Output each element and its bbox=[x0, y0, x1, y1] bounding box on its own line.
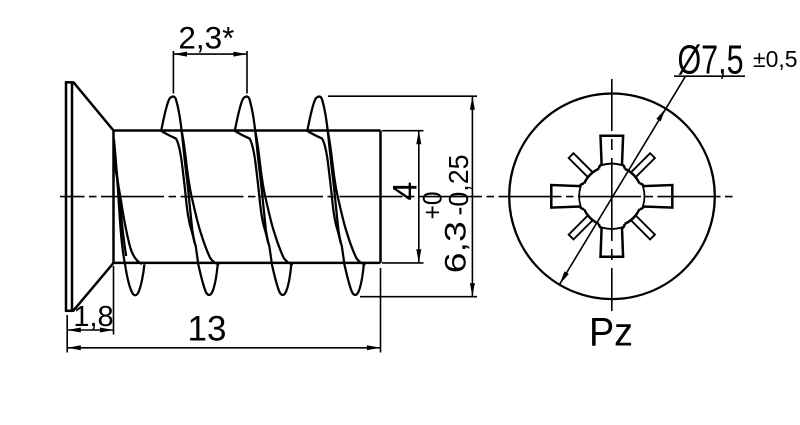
head cone bottom edge bbox=[73, 263, 113, 311]
dimension line bbox=[67, 347, 380, 349]
svg-text:1,8: 1,8 bbox=[73, 301, 113, 333]
arrow left bbox=[67, 328, 81, 333]
head rear outer line bbox=[65, 82, 68, 310]
thread blade 1 (crest x=173.4) bbox=[161, 97, 219, 295]
svg-text:2,3*: 2,3* bbox=[178, 20, 234, 56]
dimension 2,3* bbox=[173, 20, 247, 94]
arrow up bbox=[416, 131, 421, 145]
dimension 13 bbox=[67, 268, 380, 353]
arrow up bbox=[470, 96, 475, 110]
thread blade 0 (emerging at head junction) bbox=[114, 139, 144, 295]
tick upper-left bbox=[569, 153, 593, 177]
extension line bottom bbox=[360, 296, 477, 298]
head cone top edge bbox=[74, 82, 114, 130]
dimension line bbox=[67, 329, 113, 331]
svg-text:6,3: 6,3 bbox=[440, 221, 473, 273]
svg-text:-0,25: -0,25 bbox=[443, 155, 474, 216]
tick upper-right bbox=[631, 153, 655, 177]
head rear inner line bbox=[71, 82, 74, 310]
svg-text:±0,5: ±0,5 bbox=[753, 46, 798, 72]
arrow right bbox=[233, 52, 247, 57]
arrow down bbox=[470, 283, 475, 297]
arm up bbox=[599, 136, 625, 169]
dimension line bbox=[418, 131, 420, 263]
dimension line bbox=[471, 96, 473, 297]
body top edge bbox=[114, 129, 381, 132]
arrow upper bbox=[656, 109, 665, 122]
centerline vertical (plan view) bbox=[611, 79, 613, 311]
arrow left bbox=[67, 345, 81, 350]
pozidriv recess bbox=[551, 136, 672, 257]
pozidriv chord arcs at arm bases bbox=[579, 164, 644, 229]
thread blade 3 (crest x=319.5) bbox=[307, 97, 365, 295]
head bottom cap bbox=[65, 310, 74, 313]
dimension line bbox=[173, 53, 247, 55]
extension line bottom bbox=[382, 262, 424, 264]
dimension diameter 7,5 bbox=[560, 37, 798, 285]
screw body bbox=[114, 131, 381, 263]
dimension 1,8 bbox=[67, 266, 113, 353]
extension line left bbox=[172, 51, 174, 94]
socket arc upper-left bbox=[584, 169, 599, 184]
thread blade 2 (crest x=247) bbox=[235, 97, 293, 295]
dimension 6,3 +0/-0,25 bbox=[328, 96, 477, 297]
svg-text:13: 13 bbox=[188, 310, 227, 349]
svg-text:Pz: Pz bbox=[589, 311, 633, 355]
arm left bbox=[551, 183, 584, 209]
head circle (plan view) bbox=[509, 94, 715, 300]
dimension 4 bbox=[382, 131, 425, 263]
body end face bbox=[379, 131, 382, 263]
diagonal dimension line bbox=[560, 76, 686, 284]
arrow right bbox=[100, 328, 114, 333]
extension line left bbox=[66, 315, 68, 353]
head top cap bbox=[65, 81, 74, 84]
extension line right bbox=[380, 268, 382, 353]
arm right bbox=[640, 183, 673, 209]
arm down bbox=[599, 224, 625, 257]
extension line right bbox=[246, 51, 248, 94]
extension line top bbox=[382, 130, 424, 132]
socket arc lower-left bbox=[584, 209, 599, 224]
arrow down bbox=[416, 249, 421, 263]
chord arc right bbox=[643, 186, 645, 207]
chord arc bottom bbox=[601, 227, 622, 229]
socket arc lower-right bbox=[625, 209, 640, 224]
chord arc top bbox=[601, 164, 622, 166]
body bottom edge bbox=[114, 262, 381, 265]
svg-text:Ø7,5: Ø7,5 bbox=[678, 37, 744, 83]
underline to text bbox=[674, 75, 745, 77]
chord arc left bbox=[579, 186, 581, 207]
head-body junction line bbox=[112, 131, 115, 263]
arrow lower bbox=[560, 271, 569, 284]
tick lower-left bbox=[569, 216, 593, 240]
tick lower-right bbox=[631, 216, 655, 240]
screw head bbox=[65, 82, 114, 310]
extension line top bbox=[328, 95, 477, 97]
arrow right bbox=[367, 345, 381, 350]
pozidriv ticks (45 degree ribs) bbox=[569, 153, 655, 239]
extension line right bbox=[113, 266, 115, 335]
arrow left bbox=[173, 52, 187, 57]
centerline horizontal bbox=[60, 196, 737, 198]
socket arc upper-right bbox=[625, 169, 640, 184]
